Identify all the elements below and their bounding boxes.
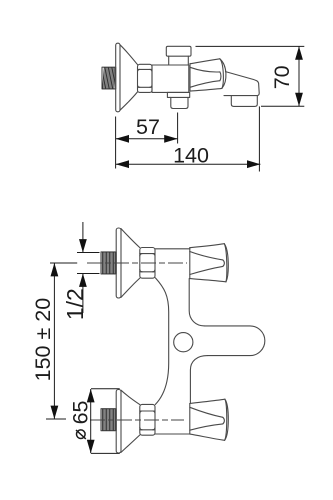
extension line outlet centre	[177, 113, 179, 144]
shower outlet lip under body	[167, 92, 189, 97]
top inlet threaded nipple (plan view)	[101, 252, 116, 274]
handle crown (side view)	[190, 59, 226, 92]
threaded nipple (side view)	[102, 67, 116, 89]
extension line wall (left)	[115, 117, 117, 169]
tick bottom (150)	[46, 418, 66, 420]
extension line spout end	[258, 106, 260, 171]
hex nut (side view)	[138, 64, 153, 92]
spout (side view)	[224, 72, 259, 96]
dimension line 150±20	[53, 263, 55, 419]
extension line ø65 bottom	[91, 452, 120, 454]
faucet body top edge	[155, 248, 190, 250]
extension line ø65 top	[91, 388, 120, 390]
svg-text:70: 70	[270, 65, 294, 89]
dimension line 140	[116, 163, 261, 165]
diverter knob cap on top	[166, 46, 191, 56]
dimension 1/2 upper arrow	[82, 222, 84, 253]
tick top (150)	[50, 262, 77, 264]
aerator under spout	[231, 96, 257, 107]
spout lower-left corner into body	[190, 356, 207, 404]
diverter knob circle	[174, 333, 193, 352]
dimension 1/2 lower arrow	[82, 274, 84, 314]
tick 1/2 top	[77, 252, 100, 254]
svg-text:57: 57	[136, 115, 160, 139]
valve body (side view)	[152, 65, 189, 92]
extension line bottom (70 dim)	[261, 105, 304, 107]
top hex nut (plan view)	[140, 248, 155, 279]
bottom inlet threaded nipple (plan view)	[101, 409, 116, 431]
top centerline (dash-dot)	[87, 262, 187, 264]
bottom centerline (dash-dot)	[90, 419, 184, 421]
extension line top (70 dim)	[196, 45, 305, 47]
bottom handle crown (plan view)	[190, 399, 229, 440]
top escutcheon cone edges	[121, 229, 140, 248]
dimension line ø65	[90, 389, 92, 453]
faucet body bottom edge	[155, 433, 190, 435]
dimension line 70	[298, 46, 300, 106]
svg-text:150 ± 20: 150 ± 20	[31, 298, 55, 382]
escutcheon cone top edge	[120, 45, 138, 65]
bottom hex nut (plan view)	[140, 404, 155, 435]
shower outlet tube	[171, 97, 188, 108]
tick 1/2 bottom	[77, 273, 100, 275]
diameter symbol of dimension text	[76, 430, 86, 439]
bottom escutcheon cone edges	[121, 390, 140, 404]
top handle crown (plan view)	[190, 244, 228, 282]
dimension line 57	[116, 138, 178, 140]
svg-text:140: 140	[173, 144, 209, 168]
spout (plan view)	[205, 326, 265, 356]
bottom escutcheon flange (plan view)	[116, 390, 121, 454]
body right edge above spout	[189, 279, 204, 326]
escutcheon cone bottom edge	[120, 92, 138, 110]
body left edge (S curve)	[155, 278, 168, 405]
svg-text:1/2: 1/2	[62, 288, 88, 320]
escutcheon flange (side view)	[116, 43, 120, 112]
top escutcheon flange (plan view)	[116, 228, 121, 298]
diverter knob neck	[168, 56, 170, 65]
svg-text:65: 65	[69, 400, 93, 424]
